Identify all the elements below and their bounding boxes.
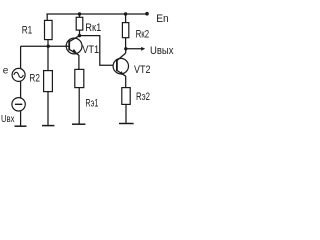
- svg-text:En: En: [156, 13, 169, 25]
- svg-text:Uвых: Uвых: [150, 45, 174, 57]
- svg-text:Rэ2: Rэ2: [136, 91, 150, 103]
- svg-text:VT2: VT2: [134, 64, 151, 76]
- svg-text:R2: R2: [29, 72, 40, 84]
- svg-text:Rэ1: Rэ1: [85, 98, 98, 110]
- svg-text:VT1: VT1: [82, 44, 99, 56]
- svg-text:e: e: [3, 66, 9, 77]
- svg-text:R1: R1: [22, 24, 33, 36]
- svg-text:Rк2: Rк2: [136, 29, 150, 41]
- svg-text:Rк1: Rк1: [85, 22, 101, 34]
- svg-text:Uвх: Uвх: [1, 113, 15, 125]
